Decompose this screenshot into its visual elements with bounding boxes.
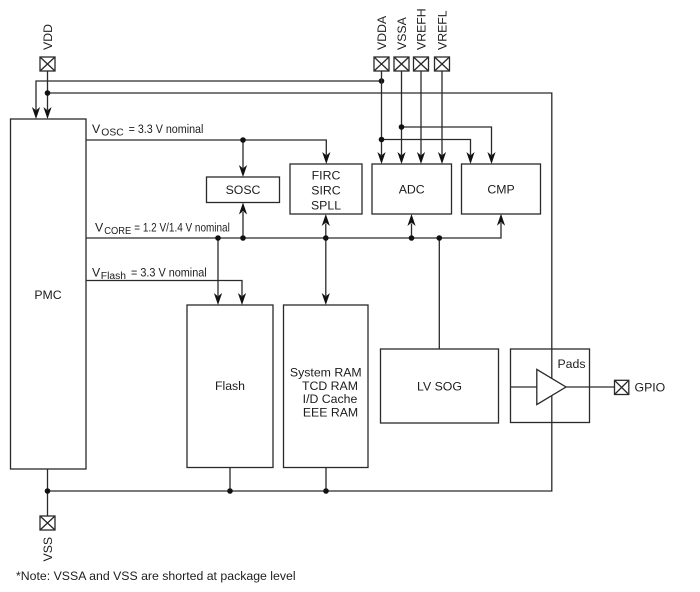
wire SOSC top feed (239, 140, 247, 177)
wire buffer input (511, 386, 537, 388)
wire VCORE up to SOSC bottom (239, 203, 247, 239)
svg-text:V: V (92, 266, 101, 280)
wire VCORE to FIRC bottom and System RAM top (322, 214, 330, 305)
svg-text:TCD RAM: TCD RAM (302, 379, 358, 393)
svg-text:FIRC: FIRC (312, 169, 341, 183)
wire Flash ground stub (229, 468, 231, 492)
block ADC (372, 164, 452, 214)
svg-text:Flash: Flash (215, 379, 245, 393)
junction VCORE / FIRC-RAM vertical (323, 235, 329, 241)
svg-text:Pads: Pads (557, 357, 585, 371)
pin VDD (40, 57, 55, 71)
svg-text:SOSC: SOSC (226, 183, 261, 197)
junction System RAM / ground rail (323, 488, 329, 494)
wire VSSA branch to CMP (402, 127, 496, 164)
junction Flash / ground rail (227, 488, 233, 494)
svg-text:VDDA: VDDA (375, 15, 389, 50)
svg-text:= 3.3 V nominal: = 3.3 V nominal (129, 122, 204, 136)
buffer U1 inside Pads (537, 369, 566, 404)
wire buffer output to GPIO pin (566, 386, 615, 388)
svg-text:System RAM: System RAM (290, 366, 362, 380)
svg-text:LV SOG: LV SOG (417, 380, 462, 394)
svg-text:GPIO: GPIO (635, 381, 666, 395)
svg-text:OSC: OSC (101, 127, 123, 138)
junction VOSC rail / SOSC feed (240, 137, 246, 143)
svg-text:SPLL: SPLL (311, 199, 341, 213)
block SOSC (207, 177, 280, 203)
block CMP (462, 164, 541, 214)
svg-text:V: V (95, 221, 104, 235)
wire VREFH feed into ADC (417, 71, 425, 164)
block Pads (511, 349, 590, 423)
svg-text:VSSA: VSSA (395, 16, 409, 50)
wire VDDA feed into ADC (377, 71, 385, 164)
svg-text:VREFL: VREFL (436, 10, 450, 50)
svg-text:= 1.2 V/1.4 V nominal: = 1.2 V/1.4 V nominal (134, 221, 230, 235)
wire VREFL feed into ADC (438, 71, 446, 164)
svg-text:SIRC: SIRC (311, 184, 340, 198)
wire VCORE rail from PMC ending up into CMP bottom (86, 214, 505, 238)
wire VCORE down to LV SOG (438, 238, 440, 349)
junction PMC / ground rail (45, 488, 51, 494)
block Flash (187, 305, 273, 468)
pin VREFH (414, 57, 429, 71)
pin VSS (40, 516, 55, 530)
svg-text:ADC: ADC (399, 182, 425, 196)
svg-text:EEE RAM: EEE RAM (303, 406, 358, 420)
wire System RAM ground stub (325, 468, 327, 492)
junction VCORE / Flash feed (215, 235, 221, 241)
pin VDDA (374, 57, 389, 71)
svg-text:CORE: CORE (104, 226, 131, 237)
junction VDDA branch (379, 137, 385, 143)
svg-text:VSS: VSS (41, 537, 55, 562)
junction VCORE / SOSC return (240, 235, 246, 241)
wire VDD pin drop into PMC (43, 71, 51, 119)
svg-text:*Note: VSSA and VSS are shorte: *Note: VSSA and VSS are shorted at packa… (16, 569, 296, 583)
svg-text:VREFH: VREFH (415, 8, 429, 50)
wire VCORE up to ADC bottom (407, 214, 415, 238)
svg-text:V: V (92, 122, 101, 136)
block LV SOG (381, 349, 499, 423)
wire VDDA branch to CMP (382, 140, 475, 165)
wire VCORE down to Flash (214, 238, 222, 305)
svg-text:PMC: PMC (34, 288, 61, 302)
junction VCORE / LV SOG feed (437, 235, 443, 241)
svg-text:= 3.3 V nominal: = 3.3 V nominal (131, 266, 207, 280)
wire VFlash rail from PMC into Flash (86, 281, 246, 306)
wire VDD rail y=81 with left drop into PMC (32, 81, 382, 119)
block FIRC SIRC SPLL (290, 164, 362, 214)
junction VSSA branch (399, 124, 405, 130)
pin GPIO (615, 380, 629, 394)
pin VREFL (435, 57, 450, 71)
wire VSSA feed into ADC (397, 71, 405, 164)
wire PMC to VSS pin (47, 469, 49, 516)
svg-text:I/D Cache: I/D Cache (303, 392, 358, 406)
svg-text:CMP: CMP (487, 182, 514, 196)
block System RAM / TCD RAM / I/D Cache / EEE RAM (284, 305, 369, 468)
wire supply loop: VDD top edge, right edge, ground bottom edge (48, 93, 552, 491)
net label VCORE = 1.2 V/1.4 V nominal (95, 221, 230, 237)
svg-text:VDD: VDD (41, 24, 55, 50)
junction VDD at supply loop top (45, 90, 51, 96)
net label VFlash = 3.3 V nominal (92, 266, 207, 282)
pin VSSA (394, 57, 409, 71)
block PMC (11, 119, 87, 469)
junction VDD rail meets VDDA feed (379, 78, 385, 84)
wire supply loop right edge through Pads (551, 349, 553, 423)
wire VOSC rail from PMC to FIRC (86, 140, 330, 164)
junction VCORE / ADC return (409, 235, 415, 241)
net label VOSC = 3.3 V nominal (92, 122, 203, 138)
